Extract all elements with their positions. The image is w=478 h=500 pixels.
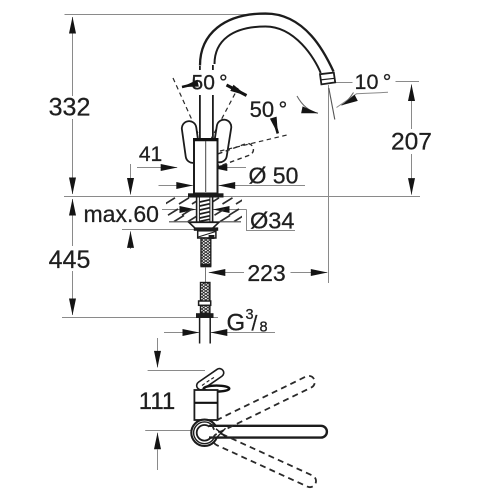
dimension 207 line upper arrow	[411, 85, 413, 130]
spout arc inner	[215, 27, 321, 74]
svg-text:Ø34: Ø34	[250, 208, 294, 234]
label 50deg spout swivel arrow	[275, 122, 278, 134]
label 50deg right leader arrow	[227, 85, 247, 96]
svg-text:445: 445	[49, 246, 91, 274]
svg-text:41: 41	[139, 143, 162, 166]
lever swing extreme dashed right	[211, 88, 239, 140]
svg-text:max.60: max.60	[84, 201, 159, 227]
base flange	[188, 193, 224, 197]
dimension 41 line left arrow	[137, 167, 177, 169]
dimension 207 top reference line right piece	[396, 81, 420, 83]
svg-text:223: 223	[247, 260, 285, 286]
dimension D50 right arrow and underline	[219, 185, 305, 187]
max.60 upper arrow	[130, 164, 132, 195]
swivel range dashed spout upper	[211, 374, 317, 434]
spout arc outer	[200, 14, 334, 72]
nut corner dark block	[209, 235, 215, 239]
dimension G3/8 line right arrow and underline	[211, 332, 275, 334]
top extension line	[65, 14, 273, 16]
dimension 207 top reference line left piece	[335, 82, 353, 84]
dimension 111 lower extension line	[145, 430, 199, 432]
dimension 332 line upper arrow	[72, 17, 74, 96]
svg-text:8: 8	[260, 319, 268, 335]
svg-text:G: G	[227, 310, 246, 337]
label 50deg lever swing background	[186, 70, 233, 95]
svg-text:50 °: 50 °	[250, 97, 288, 122]
hose collar	[199, 301, 211, 305]
crossing mark x	[216, 428, 226, 437]
dimension 111 lower arrow tail	[157, 449, 159, 470]
swivel ring inner	[197, 425, 213, 441]
dimension 111 lower arrow	[157, 433, 159, 449]
spout swivel dashed leader line	[220, 135, 289, 152]
faucet body	[194, 139, 218, 194]
hose end reference line	[62, 317, 218, 319]
max.60 lower reference line	[122, 229, 196, 231]
dimension 10deg angle arc right piece	[342, 93, 354, 106]
swivel ring middle	[194, 422, 216, 444]
flexible hose lower braided section	[201, 283, 210, 314]
faucet body centerline	[205, 141, 207, 192]
handle capsule tilted right	[211, 119, 232, 164]
dimension 111 upper extension line	[148, 370, 205, 372]
dimension 223 extension line from spout tip	[328, 85, 330, 283]
mounting cone	[189, 222, 219, 229]
dimension D34 left arrow	[162, 209, 196, 211]
svg-text:50 °: 50 °	[192, 72, 228, 95]
counter slab hatching left	[165, 198, 246, 222]
label 50deg left leader arrow	[182, 84, 197, 88]
dimension 332 line lower arrow	[72, 119, 74, 194]
threaded shank inner walls	[198, 198, 200, 222]
dimension G3/8 line left arrow	[164, 332, 199, 334]
hose end cap dark	[200, 264, 211, 267]
lever swing extreme dashed left	[173, 78, 201, 140]
nut body	[198, 231, 216, 238]
dimension 111 upper arrow	[157, 338, 159, 367]
plan view spout solid	[209, 426, 327, 438]
water stream 10deg tilted line	[329, 88, 335, 120]
plan view lever cap disc	[204, 386, 230, 392]
dimension D34 leader bend	[247, 210, 296, 231]
svg-text:/: /	[252, 313, 258, 336]
threaded shank outer walls	[196, 198, 198, 222]
dimension 41 line right arrow	[211, 167, 246, 169]
handle capsule dashed horizontal	[212, 142, 255, 167]
lever stem up position	[199, 66, 201, 139]
dimension 223 line left arrow	[209, 272, 244, 274]
faucet body top cap thick edge	[193, 138, 219, 141]
dimension 445 line upper arrow	[72, 199, 74, 246]
dimension 445 line lower arrow	[72, 271, 74, 315]
plan view lever handle	[195, 367, 225, 391]
plan view body divider	[194, 402, 217, 404]
flexible hose upper braided section	[201, 238, 211, 266]
svg-text:10 °: 10 °	[355, 70, 392, 94]
dimension 223 line right arrow	[291, 272, 328, 274]
plan view lever inner dash	[202, 378, 214, 386]
handle capsule tilted left	[181, 120, 201, 164]
plan view body	[194, 390, 217, 420]
max.60 lower arrow	[130, 231, 132, 249]
svg-text:207: 207	[391, 129, 432, 156]
G3/8 connector nut	[196, 313, 214, 318]
svg-text:111: 111	[139, 388, 175, 415]
dimension 10deg angle arc left piece	[297, 96, 318, 113]
nut body diagonal	[198, 232, 215, 237]
dimension 10deg leader underline	[337, 92, 389, 107]
svg-text:332: 332	[49, 94, 91, 122]
swivel range dashed spout lower	[211, 431, 318, 489]
mounting nut dark band	[194, 227, 218, 230]
swivel ring outer	[191, 420, 217, 446]
svg-text:Ø 50: Ø 50	[249, 163, 299, 189]
dimension D34 right arrow	[213, 209, 247, 211]
connection tube walls	[199, 318, 201, 344]
countertop surface line	[64, 196, 420, 198]
dimension 207 line lower arrow	[411, 154, 413, 195]
spout aerator mid line	[321, 78, 335, 80]
dimension D50 left arrow	[159, 185, 193, 187]
shank thread ticks	[200, 200, 210, 222]
spout aerator band	[320, 73, 335, 85]
hose centerline through gap	[205, 268, 207, 285]
counter slab bottom line	[169, 221, 241, 223]
